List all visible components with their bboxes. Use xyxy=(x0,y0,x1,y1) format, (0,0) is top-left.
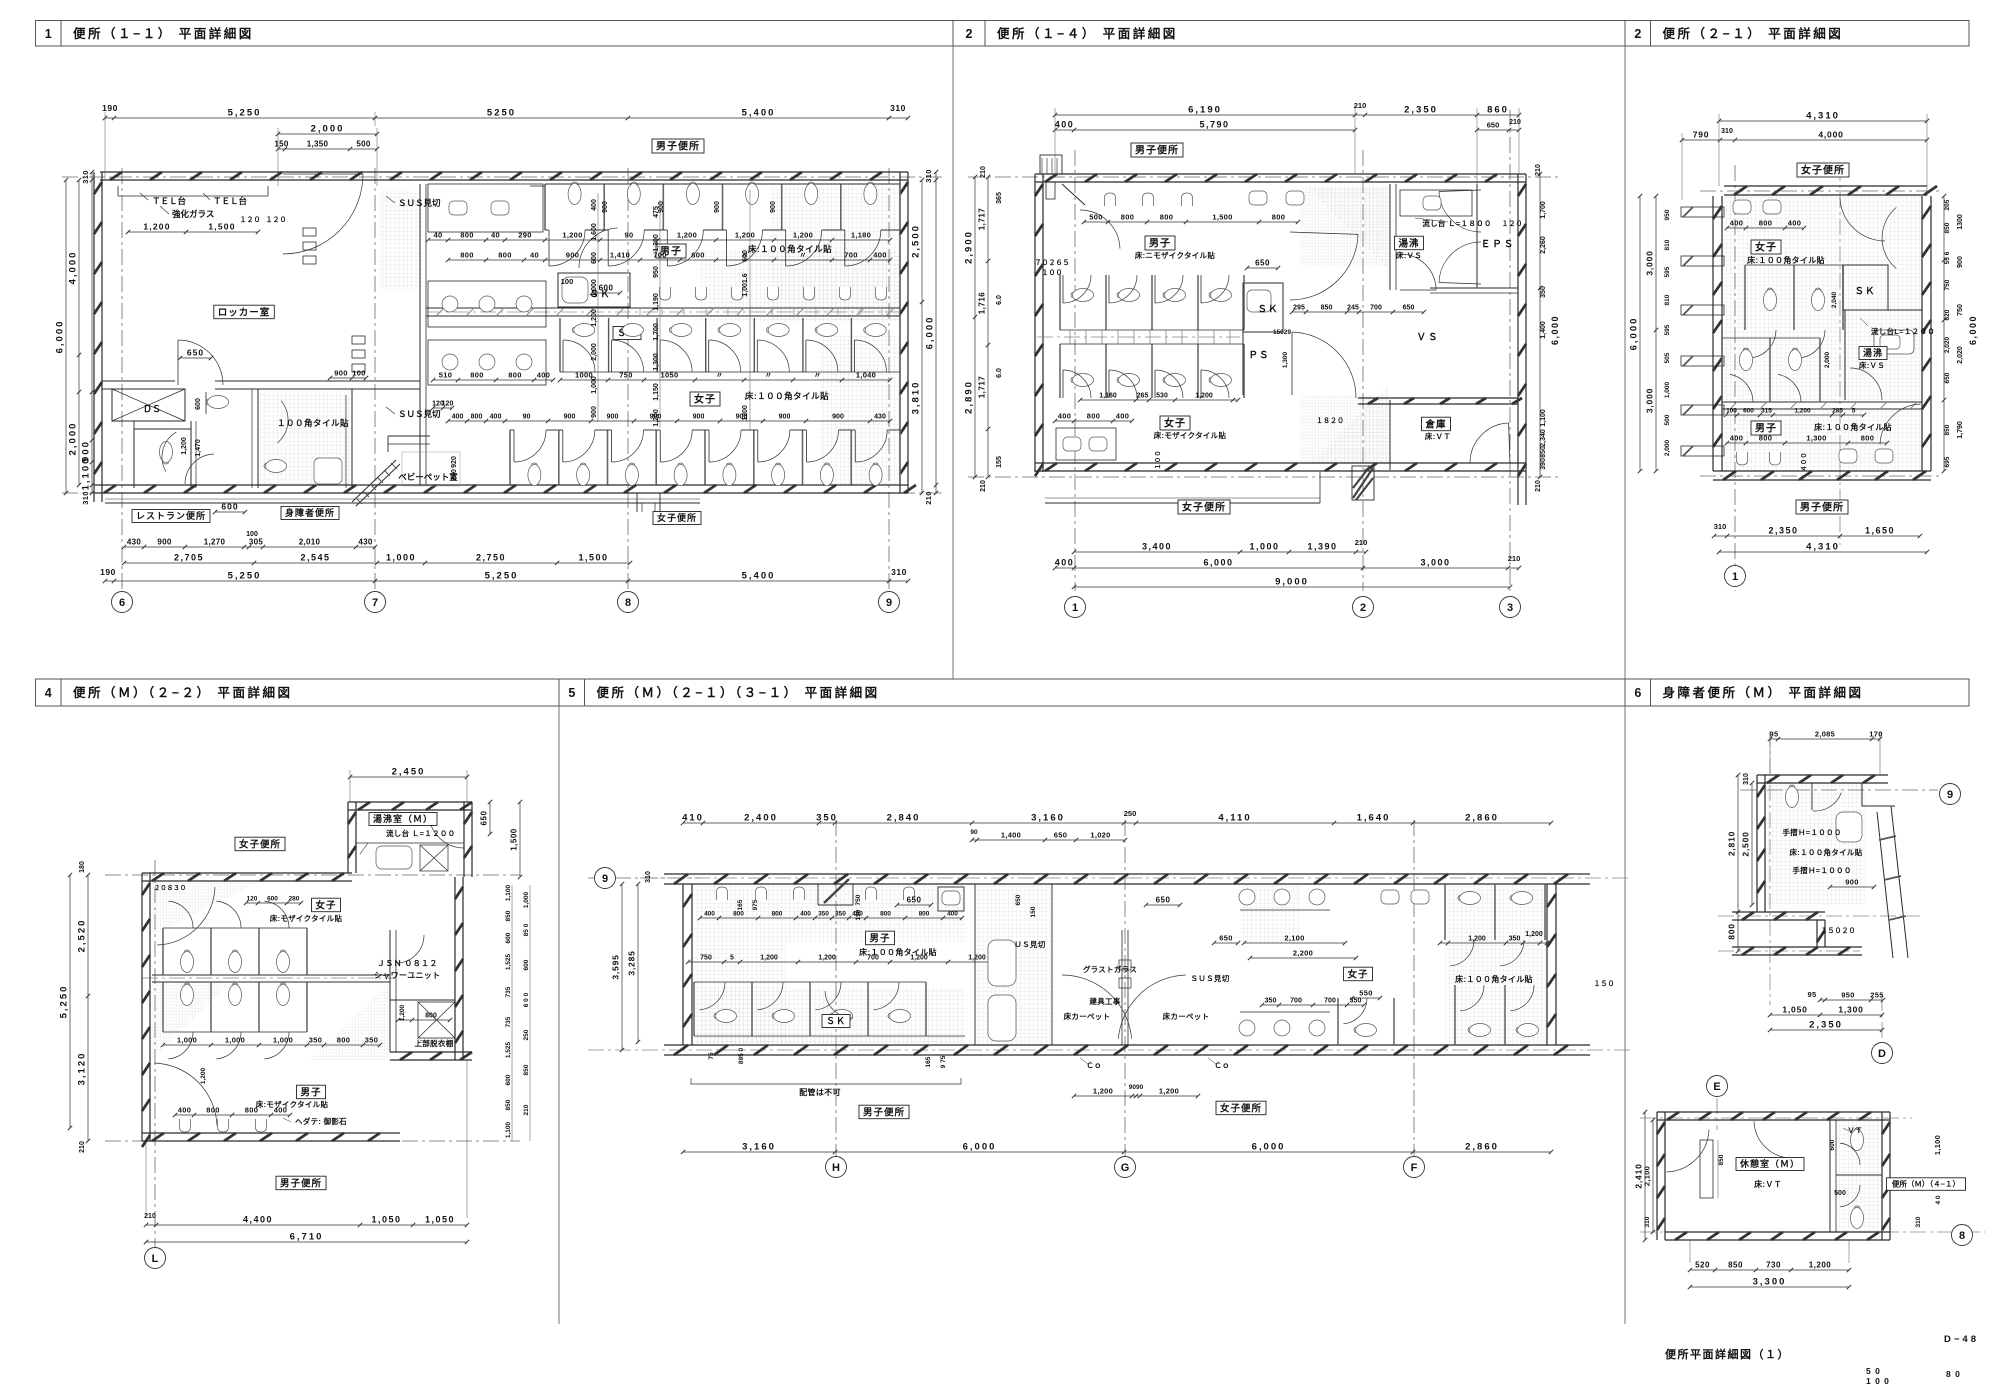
mens stalls xyxy=(544,184,546,230)
grid bubbles 1-3 xyxy=(1065,597,1086,618)
svg-text:6 0 0: 6 0 0 xyxy=(523,992,530,1007)
storage room xyxy=(1389,400,1391,470)
svg-text:1,200: 1,200 xyxy=(1525,931,1543,938)
svg-text:2,000: 2,000 xyxy=(311,124,345,135)
svg-text:900: 900 xyxy=(1845,878,1858,887)
svg-text:750: 750 xyxy=(1944,279,1951,290)
svg-text:9090: 9090 xyxy=(1129,1084,1144,1091)
svg-text:1300: 1300 xyxy=(1957,214,1964,230)
svg-text:配管は不可: 配管は不可 xyxy=(799,1087,841,1097)
svg-text:1,050: 1,050 xyxy=(1782,1005,1807,1015)
svg-text:530: 530 xyxy=(1156,393,1168,400)
svg-text:350: 350 xyxy=(1509,936,1521,943)
svg-text:ＳＫ: ＳＫ xyxy=(1854,286,1875,297)
svg-text:2,890: 2,890 xyxy=(964,380,975,414)
svg-text:350: 350 xyxy=(1265,998,1277,1005)
svg-text:5,250: 5,250 xyxy=(59,985,70,1019)
right dimensions xyxy=(511,885,513,1141)
svg-text:2,020: 2,020 xyxy=(1944,336,1951,353)
svg-text:650: 650 xyxy=(480,811,489,826)
svg-text:290: 290 xyxy=(518,231,531,240)
svg-text:155: 155 xyxy=(996,456,1003,468)
svg-text:1,000: 1,000 xyxy=(523,891,530,908)
shower unit room xyxy=(389,930,391,1052)
restaurant toilet room xyxy=(133,429,135,488)
svg-text:40: 40 xyxy=(491,231,500,240)
panel 6: accessible toilet (M) plans xyxy=(1765,783,1865,905)
grid line 6 xyxy=(121,168,123,591)
svg-text:950: 950 xyxy=(1841,991,1854,1000)
svg-text:310: 310 xyxy=(1915,1216,1922,1227)
door arcs xyxy=(1840,198,1885,241)
svg-text:1200: 1200 xyxy=(742,405,749,421)
svg-text:90: 90 xyxy=(625,231,634,240)
corridor doors xyxy=(1290,234,1358,300)
svg-text:9 75: 9 75 xyxy=(940,1055,947,1068)
svg-text:85 0: 85 0 xyxy=(523,923,530,936)
svg-text:1,200: 1,200 xyxy=(591,309,598,327)
svg-text:ヘダテ: 御影石: ヘダテ: 御影石 xyxy=(295,1116,347,1126)
svg-text:D: D xyxy=(1878,1048,1886,1060)
svg-text:40: 40 xyxy=(434,231,443,240)
svg-text:250: 250 xyxy=(1124,809,1137,818)
svg-text:695: 695 xyxy=(1944,456,1951,467)
svg-text:2: 2 xyxy=(1634,27,1641,41)
svg-text:Ｃｏ: Ｃｏ xyxy=(1086,1061,1102,1070)
svg-text:2,000: 2,000 xyxy=(68,422,79,456)
grid line 9 xyxy=(888,168,890,591)
svg-text:800: 800 xyxy=(1861,434,1874,443)
svg-text:湯沸: 湯沸 xyxy=(1398,237,1419,249)
svg-text:850: 850 xyxy=(523,1064,530,1075)
svg-text:1,190: 1,190 xyxy=(653,293,660,311)
svg-text:810: 810 xyxy=(1664,294,1671,305)
svg-text:3,160: 3,160 xyxy=(1031,813,1065,824)
grid lines H G F xyxy=(835,820,837,1160)
svg-text:520: 520 xyxy=(1695,1261,1710,1270)
svg-text:350: 350 xyxy=(1350,998,1362,1005)
svg-text:女子: 女子 xyxy=(1755,241,1777,254)
svg-text:男子: 男子 xyxy=(869,933,890,944)
svg-text:600: 600 xyxy=(221,502,238,512)
svg-text:1,700: 1,700 xyxy=(653,323,660,341)
labels xyxy=(1736,1158,1804,1171)
svg-text:750: 750 xyxy=(855,894,862,905)
sheet frame: title bars and dividers xyxy=(36,21,954,47)
svg-text:6,710: 6,710 xyxy=(290,1232,324,1243)
svg-text:床:ＶＴ: 床:ＶＴ xyxy=(1425,431,1451,441)
svg-text:女子便所: 女子便所 xyxy=(657,512,697,523)
svg-text:310: 310 xyxy=(924,169,933,182)
svg-text:900: 900 xyxy=(607,414,619,421)
wall locker/south rooms xyxy=(102,380,175,382)
svg-text:400: 400 xyxy=(873,251,886,260)
svg-text:6,000: 6,000 xyxy=(1252,1142,1286,1153)
svg-text:1,150: 1,150 xyxy=(653,383,660,401)
svg-text:900: 900 xyxy=(832,414,844,421)
svg-text:400: 400 xyxy=(704,911,715,918)
center band wall xyxy=(426,307,900,309)
svg-text:休憩室（Ｍ）: 休憩室（Ｍ） xyxy=(1739,1158,1800,1169)
svg-text:シャワーユニット: シャワーユニット xyxy=(374,971,440,980)
svg-text:1,200: 1,200 xyxy=(735,231,755,240)
wall pier xyxy=(1352,466,1374,500)
svg-text:400: 400 xyxy=(800,911,811,918)
svg-text:305: 305 xyxy=(249,538,263,547)
svg-text:800: 800 xyxy=(498,251,511,260)
svg-text:1,525: 1,525 xyxy=(505,1041,512,1058)
svg-text:310: 310 xyxy=(81,491,90,504)
svg-text:手摺Ｈ=１０００: 手摺Ｈ=１０００ xyxy=(1792,865,1851,875)
svg-text:1,000: 1,000 xyxy=(273,1036,293,1045)
grid bubble 1 xyxy=(1725,566,1746,587)
svg-text:430: 430 xyxy=(358,538,372,547)
svg-text:3,595: 3,595 xyxy=(611,954,621,979)
svg-text:2,010: 2,010 xyxy=(299,538,321,547)
svg-text:女子便所: 女子便所 xyxy=(1182,501,1226,514)
svg-text:便所（Ｍ）（４−１）: 便所（Ｍ）（４−１） xyxy=(1892,1179,1960,1189)
mens stalls xyxy=(162,982,164,1032)
svg-text:100: 100 xyxy=(1726,408,1737,415)
svg-text:750: 750 xyxy=(700,955,712,962)
yuwakashi room xyxy=(1389,184,1391,290)
right dimensions xyxy=(1539,174,1541,477)
svg-text:男子便所: 男子便所 xyxy=(1800,501,1844,514)
svg-text:1,050: 1,050 xyxy=(371,1215,401,1225)
SK room xyxy=(558,273,630,307)
svg-text:310: 310 xyxy=(81,170,90,183)
grid lines 1,2,3 xyxy=(1074,150,1076,591)
svg-text:800: 800 xyxy=(880,911,891,918)
svg-text:9: 9 xyxy=(886,597,892,609)
accessible toilet room xyxy=(257,389,259,488)
svg-text:750: 750 xyxy=(619,371,632,380)
svg-text:800: 800 xyxy=(1759,434,1772,443)
womens fixtures xyxy=(1055,420,1132,422)
svg-text:95: 95 xyxy=(1808,990,1817,999)
svg-text:Ｃｏ: Ｃｏ xyxy=(1214,1061,1230,1070)
svg-text:210: 210 xyxy=(924,491,933,504)
svg-text:1,270: 1,270 xyxy=(204,538,226,547)
svg-text:2,350: 2,350 xyxy=(1404,105,1438,116)
svg-text:1,400: 1,400 xyxy=(1001,831,1021,840)
svg-text:3,160: 3,160 xyxy=(742,1142,776,1153)
svg-text:730: 730 xyxy=(1766,1261,1781,1270)
svg-text:700: 700 xyxy=(844,251,857,260)
svg-text:400: 400 xyxy=(1058,412,1071,421)
svg-text:1,100: 1,100 xyxy=(1540,409,1547,427)
svg-text:1,200: 1,200 xyxy=(181,437,188,455)
svg-text:1,160: 1,160 xyxy=(1099,393,1117,400)
svg-text:2,000: 2,000 xyxy=(591,343,598,361)
svg-text:1,200: 1,200 xyxy=(143,222,170,232)
svg-text:D−48: D−48 xyxy=(1944,1334,1979,1345)
svg-text:床:モザイクタイル貼: 床:モザイクタイル貼 xyxy=(1154,430,1227,440)
svg-text:1,020: 1,020 xyxy=(1090,831,1110,840)
svg-text:6: 6 xyxy=(119,597,125,609)
svg-text:790: 790 xyxy=(1693,130,1710,140)
interior dimensions xyxy=(128,231,258,233)
svg-text:310: 310 xyxy=(891,567,907,577)
svg-text:5: 5 xyxy=(1852,408,1856,415)
svg-text:2,810: 2,810 xyxy=(1727,831,1737,856)
svg-text:350: 350 xyxy=(309,1036,322,1045)
grid bubbles 6-9 xyxy=(112,592,133,613)
svg-text:650: 650 xyxy=(187,348,204,358)
svg-text:600: 600 xyxy=(505,932,512,943)
svg-text:ＤＳ: ＤＳ xyxy=(143,404,161,414)
svg-text:〃: 〃 xyxy=(814,371,822,380)
bottom dimensions xyxy=(124,546,375,548)
svg-text:1,200: 1,200 xyxy=(1794,408,1811,415)
svg-text:95: 95 xyxy=(1770,730,1779,739)
svg-text:2,040: 2,040 xyxy=(1831,291,1838,308)
bottom dimensions xyxy=(1690,1269,1849,1271)
grid lines xyxy=(154,860,156,1250)
svg-text:410: 410 xyxy=(682,813,704,824)
svg-text:750: 750 xyxy=(1957,304,1964,316)
svg-text:7: 7 xyxy=(372,597,378,609)
baby bed room xyxy=(388,435,430,437)
svg-text:315: 315 xyxy=(1761,408,1772,415)
svg-text:850: 850 xyxy=(1944,222,1951,233)
svg-text:250: 250 xyxy=(523,1029,530,1040)
svg-text:895 0: 895 0 xyxy=(738,1047,745,1064)
svg-text:9,000: 9,000 xyxy=(1275,577,1309,588)
svg-text:165: 165 xyxy=(737,899,744,910)
svg-text:1,600: 1,600 xyxy=(591,223,598,241)
mens fixtures xyxy=(1105,193,1116,206)
svg-text:1,200: 1,200 xyxy=(399,1004,406,1021)
svg-text:800: 800 xyxy=(1759,219,1772,228)
svg-text:700: 700 xyxy=(1290,998,1302,1005)
svg-text:735: 735 xyxy=(505,1016,512,1027)
mens fixtures xyxy=(1751,421,1781,435)
svg-text:〃: 〃 xyxy=(765,371,773,380)
svg-text:430: 430 xyxy=(874,414,886,421)
svg-text:800: 800 xyxy=(772,911,783,918)
svg-text:3,285: 3,285 xyxy=(627,950,637,975)
womens stalls lower xyxy=(509,430,511,485)
svg-text:湯沸: 湯沸 xyxy=(1863,347,1883,358)
svg-text:310: 310 xyxy=(1644,1216,1651,1227)
top dimensions xyxy=(1770,738,1880,740)
svg-text:5: 5 xyxy=(568,686,575,700)
svg-text:3,810: 3,810 xyxy=(911,381,922,415)
svg-text:120: 120 xyxy=(247,896,258,903)
svg-text:2,750: 2,750 xyxy=(476,553,506,563)
svg-text:700: 700 xyxy=(867,955,879,962)
svg-text:800: 800 xyxy=(460,251,473,260)
svg-text:650: 650 xyxy=(1255,259,1270,268)
svg-text:600: 600 xyxy=(267,896,278,903)
svg-text:850: 850 xyxy=(1321,305,1333,312)
svg-text:1,100: 1,100 xyxy=(81,457,92,491)
svg-text:310: 310 xyxy=(1743,773,1750,785)
lobby partition xyxy=(419,184,421,485)
svg-text:2,085: 2,085 xyxy=(1815,730,1835,739)
svg-text:2,340: 2,340 xyxy=(1540,429,1547,447)
svg-text:〃: 〃 xyxy=(799,251,807,260)
svg-text:2: 2 xyxy=(1360,602,1366,614)
svg-text:800: 800 xyxy=(470,371,483,380)
svg-text:床:１００角タイル貼: 床:１００角タイル貼 xyxy=(1455,974,1533,984)
womens basins xyxy=(1733,200,1751,214)
svg-text:1,200: 1,200 xyxy=(562,231,582,240)
svg-text:ＶＳ: ＶＳ xyxy=(1416,332,1439,343)
svg-text:900: 900 xyxy=(157,538,171,547)
svg-text:920: 920 xyxy=(451,456,458,468)
svg-text:1,470: 1,470 xyxy=(195,439,202,457)
svg-text:便所（２−１） 平面詳細図: 便所（２−１） 平面詳細図 xyxy=(1663,26,1844,41)
svg-text:620: 620 xyxy=(1944,309,1951,320)
svg-text:850: 850 xyxy=(1540,446,1547,458)
svg-text:900: 900 xyxy=(714,201,721,213)
svg-text:810: 810 xyxy=(1664,239,1671,250)
svg-text:400: 400 xyxy=(1730,219,1743,228)
svg-text:1,410: 1,410 xyxy=(610,251,630,260)
svg-text:1,650: 1,650 xyxy=(1865,526,1895,536)
svg-text:ＳＫ: ＳＫ xyxy=(826,1016,846,1026)
top dimensions xyxy=(105,117,908,119)
svg-text:G: G xyxy=(1121,1162,1130,1174)
svg-text:5,250: 5,250 xyxy=(228,108,262,119)
svg-text:2,100: 2,100 xyxy=(1284,934,1304,943)
svg-text:6,000: 6,000 xyxy=(1550,315,1560,345)
svg-text:295: 295 xyxy=(1293,305,1305,312)
svg-text:1,390: 1,390 xyxy=(1307,542,1337,552)
svg-text:510: 510 xyxy=(439,371,452,380)
svg-text:210: 210 xyxy=(1354,101,1367,110)
svg-text:650: 650 xyxy=(1403,305,1415,312)
svg-text:2,350: 2,350 xyxy=(1809,1020,1843,1031)
svg-text:1,200: 1,200 xyxy=(1809,1261,1832,1270)
svg-text:800: 800 xyxy=(471,414,483,421)
exterior walls xyxy=(1724,185,1927,187)
svg-text:180: 180 xyxy=(79,861,86,873)
svg-text:190: 190 xyxy=(102,103,118,113)
svg-text:1,700: 1,700 xyxy=(1540,201,1547,219)
svg-text:2,500: 2,500 xyxy=(911,224,922,258)
svg-text:上部脱衣棚: 上部脱衣棚 xyxy=(415,1038,454,1048)
svg-text:1,000: 1,000 xyxy=(1249,542,1279,552)
SK PS rooms xyxy=(1243,283,1283,332)
womens stalls upper xyxy=(559,318,561,372)
svg-text:170: 170 xyxy=(1869,730,1882,739)
svg-text:1,717: 1,717 xyxy=(978,208,987,231)
center strip xyxy=(974,884,976,1045)
svg-text:210: 210 xyxy=(1535,480,1542,492)
svg-text:1,525: 1,525 xyxy=(505,953,512,970)
svg-text:210: 210 xyxy=(1508,554,1521,563)
svg-text:床:ニモザイクタイル貼: 床:ニモザイクタイル貼 xyxy=(1135,250,1216,260)
svg-text:便所（１−１） 平面詳細図: 便所（１−１） 平面詳細図 xyxy=(73,26,254,41)
svg-text:600: 600 xyxy=(523,959,530,970)
svg-text:床:１００角タイル貼: 床:１００角タイル貼 xyxy=(745,391,829,401)
mens fixtures xyxy=(717,887,728,900)
svg-text:650: 650 xyxy=(1487,121,1500,130)
svg-text:１５０２０: １５０２０ xyxy=(1821,926,1856,935)
svg-text:女子便所: 女子便所 xyxy=(239,838,281,850)
svg-text:身障者便所: 身障者便所 xyxy=(285,507,335,518)
svg-text:100: 100 xyxy=(246,531,258,538)
svg-text:ＳＵＳ見切: ＳＵＳ見切 xyxy=(1191,973,1230,983)
svg-text:600: 600 xyxy=(591,252,598,264)
svg-text:8 0: 8 0 xyxy=(1946,1369,1961,1379)
svg-text:500: 500 xyxy=(356,140,370,149)
svg-text:3,400: 3,400 xyxy=(1142,542,1172,552)
svg-text:身障者便所（Ｍ） 平面詳細図: 身障者便所（Ｍ） 平面詳細図 xyxy=(1663,685,1864,700)
svg-text:255: 255 xyxy=(1870,991,1883,1000)
svg-text:505: 505 xyxy=(1664,352,1671,363)
svg-text:600: 600 xyxy=(505,1074,512,1085)
svg-text:2,100: 2,100 xyxy=(1643,1166,1652,1186)
svg-text:1,100: 1,100 xyxy=(1933,1135,1942,1155)
svg-text:3,300: 3,300 xyxy=(1753,1277,1787,1288)
svg-text:900: 900 xyxy=(693,414,705,421)
svg-text:6,000: 6,000 xyxy=(1629,317,1640,351)
svg-text:床カーペット: 床カーペット xyxy=(1064,1011,1111,1021)
svg-text:75: 75 xyxy=(708,1052,715,1060)
svg-text:735: 735 xyxy=(505,986,512,997)
svg-text:床:１００角タイル貼: 床:１００角タイル貼 xyxy=(1790,847,1863,857)
svg-text:210: 210 xyxy=(79,1141,86,1153)
svg-text:男子便所: 男子便所 xyxy=(863,1106,905,1118)
svg-text:350: 350 xyxy=(1540,286,1547,298)
svg-text:1,200: 1,200 xyxy=(1468,936,1486,943)
svg-text:ＴＥＬ台: ＴＥＬ台 xyxy=(213,196,248,206)
svg-text:600: 600 xyxy=(599,284,614,293)
svg-text:400: 400 xyxy=(537,371,550,380)
svg-text:4,310: 4,310 xyxy=(1806,111,1840,122)
svg-text:便所平面詳細図（１）: 便所平面詳細図（１） xyxy=(1665,1347,1790,1361)
svg-text:280: 280 xyxy=(289,896,300,903)
svg-text:1,200: 1,200 xyxy=(677,231,697,240)
svg-text:900: 900 xyxy=(1957,256,1964,268)
svg-text:ＴＥＬ台: ＴＥＬ台 xyxy=(152,196,187,206)
svg-text:1,200: 1,200 xyxy=(1093,1087,1113,1096)
svg-text:100: 100 xyxy=(352,369,365,378)
svg-text:90: 90 xyxy=(970,829,978,836)
lower plan walls xyxy=(1836,1120,1882,1232)
svg-text:4 0: 4 0 xyxy=(1935,1195,1942,1204)
svg-text:床:１００角タイル貼: 床:１００角タイル貼 xyxy=(748,244,832,254)
svg-text:5,400: 5,400 xyxy=(742,571,776,582)
svg-text:床:ＶＴ: 床:ＶＴ xyxy=(1754,1179,1782,1189)
svg-text:800: 800 xyxy=(733,911,744,918)
panel 2: toilet (1-4) plan xyxy=(1300,186,1390,266)
svg-text:430: 430 xyxy=(127,538,141,547)
svg-text:女子: 女子 xyxy=(1347,968,1368,980)
svg-text:倉庫: 倉庫 xyxy=(1424,418,1446,430)
svg-text:9: 9 xyxy=(602,873,608,885)
EPS room xyxy=(1476,184,1478,288)
svg-text:1,200: 1,200 xyxy=(1195,393,1213,400)
svg-text:2,450: 2,450 xyxy=(392,767,426,778)
svg-text:2,200: 2,200 xyxy=(1293,949,1313,958)
svg-text:595: 595 xyxy=(1664,324,1671,335)
panel 5: toilet (M)(2-1)(3-1) plan xyxy=(694,884,786,1045)
svg-text:8: 8 xyxy=(1959,1230,1965,1242)
svg-text:165: 165 xyxy=(925,1056,932,1067)
svg-text:40: 40 xyxy=(530,251,539,260)
svg-text:強化ガラス: 強化ガラス xyxy=(172,209,214,219)
svg-text:2,350: 2,350 xyxy=(1768,526,1798,536)
svg-text:900: 900 xyxy=(564,414,576,421)
svg-text:〃: 〃 xyxy=(716,371,724,380)
yuwakashi room xyxy=(1844,310,1846,400)
svg-text:建具工事: 建具工事 xyxy=(1088,996,1120,1006)
